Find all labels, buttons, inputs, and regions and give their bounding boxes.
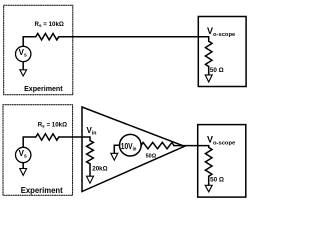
wire scope node down (bottom) <box>208 146 210 148</box>
wire resistor to ground (top scope) <box>208 67 210 75</box>
svg-text:Experiment: Experiment <box>24 84 63 93</box>
resistor 50 ohm (top scope, vertical zigzag) <box>205 41 212 66</box>
resistor 50 ohm (output, zigzag) <box>141 142 174 148</box>
wire 50 ohm to o-scope (bottom) <box>174 145 209 147</box>
amplifier triangle <box>82 107 185 192</box>
ground arrow (bottom source) <box>20 169 27 176</box>
source Vs (bottom, circle) <box>16 147 31 162</box>
svg-text:50 Ω: 50 Ω <box>210 176 224 183</box>
wire dep source to ground <box>114 145 119 153</box>
o-scope box (top) <box>198 17 246 87</box>
svg-text:Rs = 10kΩ: Rs = 10kΩ <box>38 121 67 128</box>
wire source to resistor (top) <box>23 37 36 47</box>
wire resistor to ground (bottom scope) <box>208 176 210 185</box>
wire source to resistor (bottom) <box>23 137 36 147</box>
ground arrow (bottom scope) <box>205 185 212 192</box>
resistor Rs 10k (bottom, zigzag) <box>36 134 59 140</box>
wire scope node down (top) <box>208 37 210 42</box>
svg-text:Experiment: Experiment <box>21 186 63 195</box>
ground arrow (dep source) <box>111 153 118 160</box>
dependent source 10Vin (circle) <box>120 134 142 156</box>
experiment box (bottom, dashed) <box>3 105 73 196</box>
svg-text:20kΩ: 20kΩ <box>92 166 107 173</box>
wire resistor to amplifier Vin node <box>59 136 90 138</box>
svg-text:50Ω: 50Ω <box>146 153 157 159</box>
o-scope box (bottom) <box>198 125 246 198</box>
svg-text:Rs = 10kΩ: Rs = 10kΩ <box>35 21 64 28</box>
experiment box (top, dashed) <box>4 5 73 95</box>
ground arrow (top scope) <box>205 75 212 82</box>
wire 20k to ground <box>89 164 91 176</box>
resistor 20k (input, vertical zigzag) <box>87 137 94 164</box>
source Vs (top, circle) <box>16 46 31 61</box>
resistor Rs 10k (top, zigzag) <box>36 34 59 40</box>
svg-text:50 Ω: 50 Ω <box>210 67 224 74</box>
resistor 50 ohm (bottom scope, vertical zigzag) <box>205 147 212 176</box>
ground arrow (top source) <box>20 70 27 76</box>
wire source to ground (bottom) <box>22 163 24 169</box>
wire resistor to o-scope (top) <box>59 36 209 38</box>
wire source to ground (top) <box>22 62 24 70</box>
ground arrow (20k) <box>87 176 94 183</box>
